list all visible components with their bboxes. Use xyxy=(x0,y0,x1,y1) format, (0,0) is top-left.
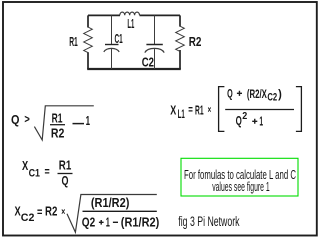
wire left branch lower xyxy=(87,52,89,69)
wire bottom xyxy=(87,68,181,70)
capacitor C1 plates xyxy=(105,44,119,46)
radical of XC2 xyxy=(67,195,157,233)
svg-text:Q: Q xyxy=(11,113,20,127)
capacitor C2 wire lower xyxy=(154,48,156,69)
capacitor C2 plates xyxy=(146,44,162,46)
formula X_L1 = R1 x [ (Q+(R2/X_C2))/(Q^2+1) ] xyxy=(170,87,232,122)
svg-text:): ) xyxy=(278,87,282,101)
svg-text:X: X xyxy=(170,102,176,117)
svg-text:C1: C1 xyxy=(115,31,123,46)
svg-text:Q2: Q2 xyxy=(82,215,95,229)
svg-text:(R1/R2): (R1/R2) xyxy=(91,196,129,210)
minus sign XC2 denominator xyxy=(113,221,118,223)
svg-text:X: X xyxy=(22,158,28,173)
svg-text:values see figure 1: values see figure 1 xyxy=(212,180,270,194)
left bracket xyxy=(219,87,225,132)
svg-text:R1: R1 xyxy=(195,103,204,117)
inductor L1 xyxy=(120,12,140,15)
svg-text:1: 1 xyxy=(259,115,263,129)
svg-text:C1: C1 xyxy=(29,168,40,180)
wire top-left xyxy=(88,14,120,16)
svg-text:=: = xyxy=(188,103,193,117)
minus dash of formula Q xyxy=(73,123,85,125)
svg-text:C2: C2 xyxy=(142,54,154,69)
svg-text:fig 3 Pi Network: fig 3 Pi Network xyxy=(178,214,239,229)
svg-text:(R2/X: (R2/X xyxy=(247,87,267,101)
svg-text:R2: R2 xyxy=(51,126,65,141)
wire right branch lower xyxy=(179,50,181,69)
green note box xyxy=(181,158,298,196)
svg-text:Q: Q xyxy=(236,114,242,128)
svg-text:R1: R1 xyxy=(69,34,78,49)
svg-text:R1: R1 xyxy=(59,158,72,172)
svg-text:×: × xyxy=(61,207,65,218)
svg-text:=: = xyxy=(45,165,50,179)
wire top-right xyxy=(140,14,181,16)
svg-text:R1: R1 xyxy=(52,110,63,125)
radical of formula Q xyxy=(34,106,93,140)
fraction bar XC2 xyxy=(83,210,157,212)
formula Q > sqrt(R1/R2 - 1) xyxy=(11,110,90,140)
svg-text:×: × xyxy=(208,104,212,116)
right bracket xyxy=(296,87,302,132)
plus sign XC2 denominator xyxy=(99,220,104,225)
svg-text:Q: Q xyxy=(227,87,233,101)
formula X_C1 = R1/Q xyxy=(22,158,71,188)
svg-text:C2: C2 xyxy=(21,212,35,224)
plus sign numerator xyxy=(237,91,242,96)
capacitor C1 wire lower xyxy=(111,48,113,69)
svg-text:R2: R2 xyxy=(45,204,57,218)
svg-text:(R1/R2): (R1/R2) xyxy=(121,215,160,229)
svg-text:C2: C2 xyxy=(267,91,277,103)
resistor R1 xyxy=(84,27,93,52)
capacitor C2 wire upper xyxy=(154,15,156,44)
wire right branch upper xyxy=(179,15,181,26)
svg-text:1: 1 xyxy=(106,215,110,229)
svg-text:R2: R2 xyxy=(189,34,202,49)
fraction bar XL1 xyxy=(225,109,294,111)
svg-text:>: > xyxy=(24,114,30,126)
fraction bar XC1 xyxy=(58,173,73,175)
svg-text:=: = xyxy=(37,205,42,219)
svg-text:1: 1 xyxy=(86,113,90,128)
svg-text:L1: L1 xyxy=(127,16,134,31)
wire left branch upper xyxy=(87,15,89,27)
plus sign denominator xyxy=(252,119,257,124)
formula X_C2 = R2 x sqrt((R1/R2)/(Q2+1-(R1/R2))) xyxy=(15,196,130,230)
svg-text:2: 2 xyxy=(242,111,247,122)
svg-text:L1: L1 xyxy=(178,107,185,121)
svg-text:Q: Q xyxy=(62,174,69,188)
resistor R2 xyxy=(176,26,185,51)
capacitor C1 wire upper xyxy=(111,15,113,44)
fraction bar R1/R2 xyxy=(50,124,65,126)
